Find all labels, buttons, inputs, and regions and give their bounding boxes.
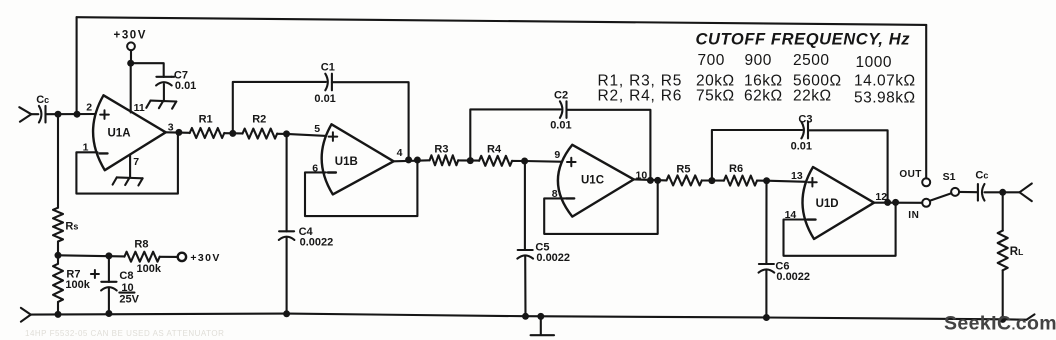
wire: U1D output to IN terminal [874,202,922,204]
terminal IN [922,199,930,207]
wire: RL to bottom rail [1002,270,1004,319]
svg-text:R8: R8 [134,238,148,250]
wire: R6 to U1D input node [757,180,767,182]
U1D - input symbol [808,218,816,220]
capacitor C4 [279,230,294,232]
svg-text:R2: R2 [252,113,266,125]
wire: C5 to bottom rail [524,256,526,316]
svg-text:2500: 2500 [793,52,829,69]
junction: input node to top rail [74,111,81,118]
wire: C7 to ground [163,84,165,101]
svg-text:R3: R3 [434,144,448,156]
U1C + input symbol [567,158,576,167]
svg-text:RL: RL [1010,246,1024,258]
wire: top rail right drop to OUT terminal [925,25,927,179]
svg-text:R4: R4 [487,143,502,155]
+30V supply terminal (top) [127,42,135,50]
junction: C8 at rail [105,310,112,317]
capacitor C5 branch wire upper [524,161,526,250]
junction: R1/R2 node (C1 tap) [229,130,236,137]
svg-text:+30V: +30V [190,252,220,264]
junction: +30V node [127,60,134,67]
wire: bias node to R8 [58,255,124,256]
wire: node to U1C pin 9 [525,160,566,163]
junction: RL at rail [999,316,1006,323]
junction: U1B feedback node [414,157,421,164]
svg-text:100k: 100k [65,279,90,291]
wire: input node down to Rs [57,114,59,208]
junction: C4 at rail [283,310,290,317]
svg-text:CUTOFF FREQUENCY, Hz: CUTOFF FREQUENCY, Hz [696,31,911,49]
svg-text:900: 900 [745,52,772,69]
wire: C6 to bottom rail [765,270,767,317]
wire: R5 to R6 [702,179,724,181]
resistor R4 [479,156,512,166]
svg-text:U1C: U1C [581,174,604,186]
wire: C2 loop (R3/R4 node to U1C output) [470,109,560,160]
svg-text:S1: S1 [943,171,956,183]
junction: ground at rail [537,313,544,320]
capacitor C3 [801,122,804,139]
wire: Cc to output node [985,191,1020,193]
svg-text:Cc: Cc [36,94,49,106]
junction: U1D + input node (C6 tap) [763,177,770,184]
wire: rail to ground stub [540,316,542,335]
junction: R3/R4 node (C2 tap) [467,157,474,164]
svg-text:5: 5 [314,123,320,135]
resistor RL [998,231,1008,271]
svg-text:62kΩ: 62kΩ [744,88,783,105]
svg-text:4: 4 [397,147,403,159]
input arrow (top left signal input) [19,107,31,114]
wire: Cc to U1A noninverting input [46,113,98,115]
capacitor C6 branch wire upper [765,181,767,264]
capacitor C5 [518,249,533,251]
resistor Rs [53,208,63,242]
capacitor C8 polarity + [91,270,99,278]
svg-text:13: 13 [791,170,803,182]
wire: input to Cc [31,113,38,115]
switch S1 contact [951,188,959,196]
output arrow [1020,184,1032,193]
wire: node to U1B pin 5 [287,134,327,136]
svg-text:22kΩ: 22kΩ [793,88,832,105]
wire: +30V node to C7 [131,63,164,77]
junction: U1B + input node (C4 tap) [283,130,290,137]
svg-text:100k: 100k [137,263,162,275]
svg-text:75kΩ: 75kΩ [696,88,735,105]
C8 fraction bar [119,292,134,294]
junction: bias node [55,252,62,259]
wire: pin 7 to ground [129,154,131,177]
ground (U1A pin 7) [117,176,143,179]
junction: U1D feedback node [892,199,899,206]
svg-text:11: 11 [134,102,145,114]
svg-text:0.01: 0.01 [314,93,335,105]
wire: bottom rail [31,314,1027,320]
U1A + input symbol [100,110,109,119]
svg-text:25V: 25V [119,294,139,306]
capacitor C8 (electrolytic) [101,281,116,283]
U1A - input symbol [100,152,108,154]
wire: +30V terminal down [130,50,132,63]
svg-text:0.01: 0.01 [175,80,196,92]
svg-text:700: 700 [698,52,725,69]
svg-text:0.0022: 0.0022 [536,252,570,264]
svg-text:R6: R6 [729,163,743,175]
resistor R1 [190,128,225,138]
wire: pin 11 supply stub [130,63,132,112]
svg-text:C3: C3 [798,113,812,125]
wire: U1D feedback loop (output to pin 14) [784,202,896,255]
capacitor C7 [156,76,171,78]
wire: C3 loop (R5/R6 node to U1D output) [712,130,802,181]
svg-text:2: 2 [86,102,92,114]
+30V supply terminal (bias) [178,253,186,261]
wire: U1B output to R3 [394,160,430,161]
junction: U1C feedback node [654,177,661,184]
wire: U1B feedback loop (output to pin 6) [305,160,417,216]
junction: C6 at rail [763,314,770,321]
svg-text:Cc: Cc [975,170,988,182]
svg-text:Rs: Rs [65,220,78,232]
svg-text:OUT: OUT [899,169,921,180]
svg-text:R1: R1 [199,113,213,125]
junction: C5 at rail [522,313,529,320]
wire: bottom rail end tick [1027,314,1035,319]
wire: C8 to bottom rail [108,288,110,314]
capacitor Cc (input coupling) [39,106,42,123]
junction: U1C + input node (C5 tap) [521,158,528,165]
capacitor C2 [560,101,563,118]
junction: output node (RL tap) [999,189,1006,196]
svg-text:U1A: U1A [108,128,131,140]
junction: bias node C8 tap [105,252,112,259]
resistor R5 [667,175,702,185]
wire: bias node to C8 [108,256,110,282]
input arrow (bottom left return) [21,308,31,315]
svg-text:+30V: +30V [114,30,148,42]
junction: R7 at rail [55,311,62,318]
svg-text:C2: C2 [554,89,568,101]
capacitor C6 [759,263,774,265]
junction: U1A output node [175,129,182,136]
svg-text:0.0022: 0.0022 [300,237,334,249]
terminal OUT [922,178,930,186]
capacitor Cc (output coupling) [977,184,979,201]
U1B + input symbol [329,132,338,141]
wire: node to U1D pin 13 [767,181,811,182]
wire: R8 to +30V terminal [160,256,178,258]
svg-text:R2, R4, R6: R2, R4, R6 [598,88,683,105]
op-amp U1D [802,167,874,239]
svg-text:14HP F5532-05 CAN BE USED A: 14HP F5532-05 CAN BE USED AS ATTENUATOR [25,329,224,338]
svg-text:1000: 1000 [856,54,892,71]
wire: C1 loop (R1/R2 node to U1B output) [233,82,326,133]
resistor R7 [53,264,63,302]
wire: output node to RL [1002,192,1004,230]
junction: R5/R6 node (C3 tap) [708,177,715,184]
svg-text:U1D: U1D [816,198,839,210]
resistor R8 [124,252,159,262]
junction: C2 return node [647,177,654,184]
capacitor C4 branch wire upper [286,134,288,232]
capacitor C1 [325,74,328,91]
svg-text:7: 7 [133,156,139,168]
wire: U1A feedback loop (output to pin 1) [76,132,177,193]
op-amp U1B [322,124,394,194]
U1D + input symbol [808,178,817,187]
junction: C1 return node [405,156,412,163]
junction: C3 return node [884,199,891,206]
op-amp U1C [558,145,634,217]
wire: Rs to bias node [57,242,59,256]
wire: R4 to U1C input node [512,160,525,162]
ground (bottom rail) [531,334,554,336]
switch S1 blade [930,193,952,201]
wire: S1 to output Cc [959,191,977,193]
U1C - input symbol [566,197,574,199]
svg-text:R5: R5 [676,163,690,175]
svg-text:0.01: 0.01 [550,120,571,132]
wire: bias node to R7 [57,255,59,263]
svg-text:C8: C8 [119,270,133,282]
svg-text:IN: IN [908,210,919,221]
wire: R3 to R4 [458,159,479,161]
wire: R2 to U1B input node [277,133,286,135]
wire: C4 to bottom rail [286,238,288,314]
U1B - input symbol [328,171,336,173]
wire: top feedback rail [77,17,927,25]
resistor R6 [724,176,757,186]
svg-text:53.98kΩ: 53.98kΩ [854,90,916,107]
ground (C7) [151,100,177,103]
wire: U1C output to R5 [634,179,667,180]
svg-text:SeekIC.com: SeekIC.com [944,313,1056,335]
op-amp U1A [93,95,166,170]
wire: U1A output [166,131,190,134]
svg-text:C1: C1 [321,62,335,74]
junction: input node to Rs [55,111,62,118]
wire: R7 to bottom rail [57,302,59,315]
svg-text:U1B: U1B [335,156,358,168]
wire: U1C feedback loop (output to pin 8) [544,180,658,234]
wire: R1 to R2 [224,132,242,134]
resistor R3 [430,155,459,165]
svg-text:14.07kΩ: 14.07kΩ [854,73,916,90]
svg-text:0.0022: 0.0022 [776,271,810,283]
svg-text:0.01: 0.01 [791,140,812,152]
svg-text:9: 9 [554,149,560,161]
wire: top rail left drop to input node [76,17,78,114]
resistor R2 [243,129,278,139]
